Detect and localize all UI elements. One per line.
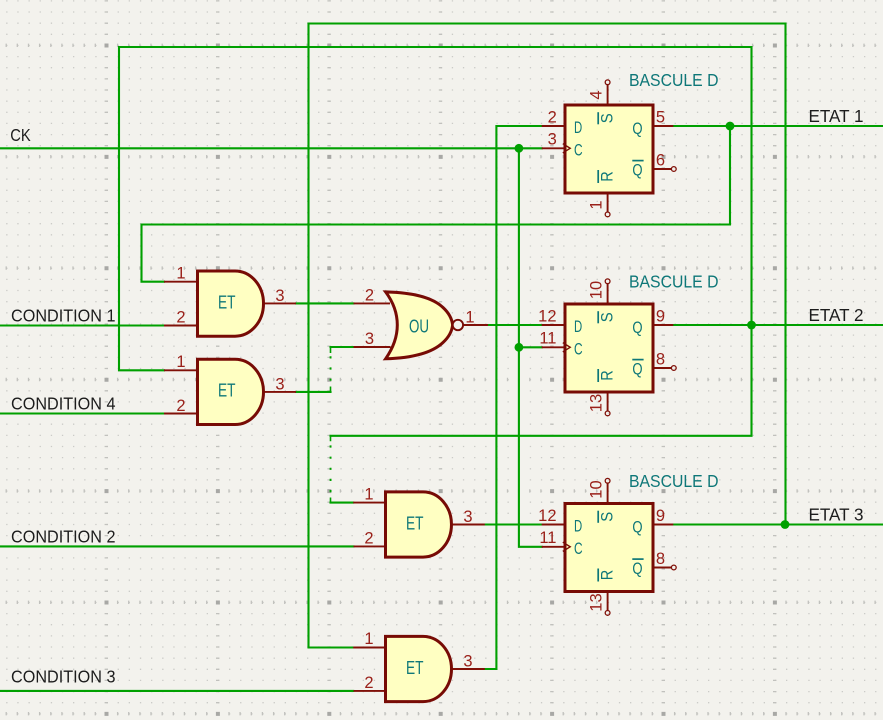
svg-text:4: 4: [588, 90, 606, 99]
svg-text:2: 2: [176, 309, 185, 327]
svg-text:12: 12: [538, 307, 556, 325]
svg-text:ETAT 3: ETAT 3: [809, 505, 864, 525]
svg-text:3: 3: [365, 330, 374, 348]
svg-text:CONDITION 1: CONDITION 1: [11, 306, 116, 326]
svg-text:Q: Q: [632, 119, 642, 138]
svg-text:8: 8: [656, 350, 665, 368]
svg-text:CONDITION 2: CONDITION 2: [11, 526, 116, 546]
svg-text:S: S: [598, 113, 617, 123]
svg-text:S: S: [598, 312, 617, 322]
svg-text:13: 13: [588, 394, 606, 412]
svg-text:1: 1: [465, 308, 474, 326]
svg-text:D: D: [574, 317, 582, 336]
svg-text:Q: Q: [632, 559, 642, 578]
svg-text:C: C: [574, 340, 583, 359]
svg-text:1: 1: [364, 630, 373, 648]
svg-text:12: 12: [538, 507, 556, 525]
svg-text:OU: OU: [409, 317, 429, 337]
svg-text:1: 1: [176, 265, 185, 283]
svg-text:2: 2: [365, 286, 374, 304]
svg-text:1: 1: [176, 353, 185, 371]
svg-text:2: 2: [548, 108, 557, 126]
svg-text:R: R: [598, 570, 617, 581]
svg-text:D: D: [574, 118, 582, 137]
svg-text:ET: ET: [218, 381, 236, 401]
svg-text:C: C: [574, 539, 583, 558]
svg-text:13: 13: [588, 593, 606, 611]
svg-text:9: 9: [656, 307, 665, 325]
svg-text:Q: Q: [632, 359, 642, 378]
svg-text:11: 11: [539, 529, 556, 547]
svg-text:C: C: [574, 141, 583, 160]
svg-text:ET: ET: [406, 658, 424, 678]
svg-text:9: 9: [656, 507, 665, 525]
svg-text:BASCULE D: BASCULE D: [629, 70, 719, 90]
svg-text:11: 11: [539, 330, 556, 348]
svg-text:Q: Q: [632, 518, 642, 537]
svg-text:ET: ET: [218, 292, 236, 312]
svg-text:2: 2: [364, 674, 373, 692]
svg-text:Q: Q: [632, 160, 642, 179]
svg-text:3: 3: [463, 652, 472, 670]
svg-text:10: 10: [588, 480, 606, 498]
svg-text:3: 3: [275, 287, 284, 305]
svg-text:R: R: [598, 171, 617, 182]
svg-text:CONDITION 3: CONDITION 3: [11, 667, 116, 687]
svg-text:1: 1: [588, 200, 606, 209]
svg-text:D: D: [574, 517, 582, 536]
svg-text:S: S: [598, 512, 617, 522]
svg-text:CONDITION 4: CONDITION 4: [11, 394, 116, 414]
svg-text:BASCULE D: BASCULE D: [629, 471, 719, 491]
svg-text:6: 6: [656, 151, 665, 169]
svg-text:2: 2: [364, 529, 373, 547]
svg-text:8: 8: [656, 550, 665, 568]
svg-text:10: 10: [588, 281, 606, 299]
svg-text:3: 3: [275, 375, 284, 393]
svg-text:1: 1: [364, 486, 373, 504]
svg-text:ETAT 1: ETAT 1: [809, 106, 864, 126]
svg-text:R: R: [598, 370, 617, 381]
svg-text:5: 5: [656, 108, 665, 126]
svg-text:CK: CK: [10, 125, 31, 145]
svg-text:2: 2: [176, 397, 185, 415]
svg-text:3: 3: [548, 131, 557, 149]
svg-text:Q: Q: [632, 318, 642, 337]
svg-text:BASCULE D: BASCULE D: [629, 272, 719, 292]
svg-text:ETAT 2: ETAT 2: [809, 305, 864, 325]
svg-text:ET: ET: [406, 513, 424, 533]
svg-text:3: 3: [463, 508, 472, 526]
